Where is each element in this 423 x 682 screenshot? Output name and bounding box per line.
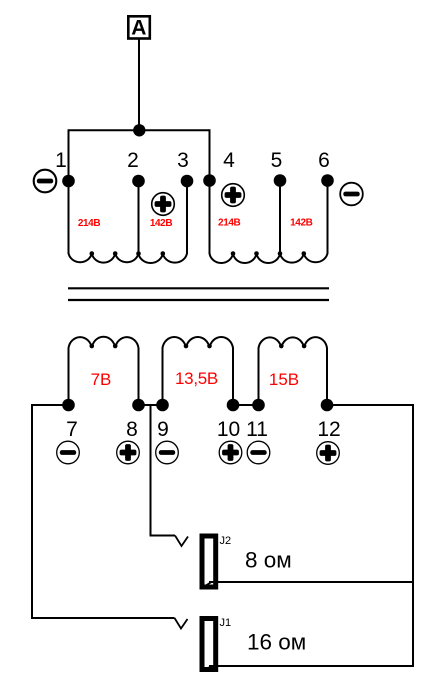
svg-text:J2: J2 bbox=[220, 535, 232, 547]
polarity plus at terminal 4 bbox=[222, 184, 245, 207]
polarity plus at terminal 10 bbox=[219, 441, 242, 464]
polarity minus at terminal 1 bbox=[34, 170, 57, 193]
wire left rail vertical bbox=[31, 404, 33, 619]
terminal dot 9 bbox=[156, 399, 169, 412]
svg-text:12: 12 bbox=[317, 418, 340, 441]
wire link terminals 10-11 bbox=[233, 404, 259, 406]
svg-text:5: 5 bbox=[271, 149, 283, 172]
terminal dot 10 bbox=[227, 399, 240, 412]
wire top bus bbox=[69, 129, 210, 131]
wire link terminals 8-9 bbox=[139, 404, 163, 406]
polarity minus at terminal 11 bbox=[247, 441, 270, 464]
svg-text:15В: 15В bbox=[269, 370, 299, 389]
wire terminal 6 bbox=[327, 178, 329, 254]
terminal dot 8 bbox=[132, 399, 145, 412]
primary winding L1 terminals 1-2-3 bbox=[69, 251, 188, 263]
terminal dot 3 bbox=[181, 175, 194, 188]
svg-text:13,5В: 13,5В bbox=[175, 369, 218, 388]
terminal dot 6 bbox=[321, 174, 334, 187]
svg-text:7В: 7В bbox=[91, 370, 112, 389]
svg-text:6: 6 bbox=[318, 149, 330, 172]
terminal dot 7 bbox=[62, 399, 75, 412]
svg-text:9: 9 bbox=[157, 418, 169, 441]
transformer core bbox=[68, 288, 329, 300]
polarity minus at terminal 7 bbox=[57, 441, 80, 464]
polarity minus at terminal 9 bbox=[156, 441, 179, 464]
wire terminal 2 bbox=[138, 178, 140, 254]
wire right rail vertical bbox=[412, 404, 414, 667]
svg-text:11: 11 bbox=[246, 418, 268, 441]
secondary winding L5 terminals 11-12 bbox=[259, 337, 328, 405]
polarity plus between terminals 2 and 3 bbox=[152, 193, 175, 216]
polarity plus at terminal 12 bbox=[317, 442, 340, 465]
wire terminal 4 bbox=[209, 129, 211, 254]
wire jack J1 sleeve to right rail bbox=[209, 665, 414, 667]
svg-text:8 ом: 8 ом bbox=[245, 548, 292, 573]
junction dot on bus bbox=[133, 124, 145, 136]
svg-text:2: 2 bbox=[127, 149, 139, 172]
wire terminal 5 bbox=[279, 178, 281, 254]
secondary winding L4 terminals 9-10 bbox=[163, 337, 234, 405]
terminal dot 12 bbox=[321, 399, 334, 412]
svg-text:8: 8 bbox=[126, 418, 138, 441]
svg-text:1: 1 bbox=[55, 149, 67, 172]
wire junction 8-9 drop to jack J2 bbox=[150, 404, 152, 537]
wire A to bus bbox=[138, 39, 140, 130]
wire terminal 3 bbox=[186, 178, 188, 254]
jack J1 body bbox=[202, 619, 216, 670]
svg-text:10: 10 bbox=[217, 418, 240, 441]
polarity minus at terminal 6 bbox=[340, 183, 363, 206]
tip contact V of jack J1 bbox=[175, 618, 188, 629]
svg-text:4: 4 bbox=[223, 149, 235, 172]
terminal dot 11 bbox=[252, 399, 265, 412]
terminal dot 1 bbox=[62, 175, 75, 188]
primary winding L2 terminals 4-5-6 bbox=[210, 251, 328, 263]
svg-text:A: A bbox=[131, 16, 146, 39]
svg-text:214В: 214В bbox=[78, 218, 100, 229]
svg-text:7: 7 bbox=[66, 418, 78, 441]
secondary winding L3 terminals 7-8 bbox=[69, 337, 139, 405]
svg-text:142В: 142В bbox=[290, 218, 312, 229]
wire left rail to terminal 7 bbox=[31, 404, 69, 406]
wire drop to jack J2 tip bbox=[150, 535, 176, 537]
svg-text:J1: J1 bbox=[220, 617, 232, 629]
svg-text:16 ом: 16 ом bbox=[247, 630, 306, 655]
polarity plus at terminal 8 bbox=[117, 441, 140, 464]
terminal dot 2 bbox=[132, 175, 145, 188]
wire terminal 12 to right rail bbox=[327, 404, 414, 406]
terminal dot 4 bbox=[203, 174, 216, 187]
terminal dot 5 bbox=[274, 174, 287, 187]
svg-text:142В: 142В bbox=[150, 218, 172, 229]
wire terminal 1 bbox=[68, 129, 70, 254]
svg-text:214В: 214В bbox=[218, 218, 240, 229]
tip contact V of jack J2 bbox=[175, 536, 188, 547]
svg-text:3: 3 bbox=[177, 149, 189, 172]
wire jack J2 sleeve to right rail bbox=[209, 581, 414, 583]
terminal A box bbox=[128, 16, 150, 39]
jack J2 body bbox=[202, 536, 216, 587]
wire left rail to jack J1 bbox=[31, 617, 175, 619]
